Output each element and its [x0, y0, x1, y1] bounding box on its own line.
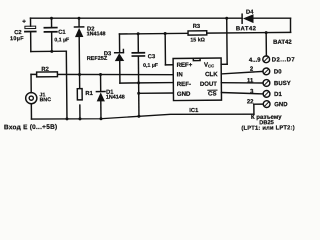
svg-text:DOUT: DOUT [200, 82, 217, 88]
node junction C1 bottom [50, 50, 53, 53]
svg-text:D4: D4 [246, 10, 254, 16]
svg-text:BUSY: BUSY [274, 81, 291, 87]
svg-text:GND: GND [177, 91, 191, 98]
pin BUSY connector [247, 78, 291, 88]
pin GND connector [247, 99, 288, 108]
node junction D1/rail [99, 117, 102, 120]
svg-text:REF+: REF+ [177, 62, 193, 69]
node junction R1/rail [78, 117, 81, 120]
svg-text:15 kΩ: 15 kΩ [190, 37, 205, 43]
wire REF+ elbow [165, 33, 173, 64]
svg-text:R3: R3 [193, 24, 201, 30]
resistor R1 [77, 74, 94, 119]
pin D1 connector [250, 89, 282, 98]
wire ground to GND pin [254, 104, 263, 114]
capacitor C3 [132, 34, 158, 117]
wire +5V top rail [31, 14, 291, 32]
node junction REF+ drop [164, 32, 167, 35]
node junction GND wire [137, 92, 140, 95]
wire input node [31, 73, 173, 76]
svg-text:CS: CS [208, 90, 217, 97]
capacitor C1 [44, 18, 69, 52]
svg-text:10µF: 10µF [10, 36, 24, 42]
svg-text:REF25Z: REF25Z [87, 56, 108, 62]
svg-text:C1: C1 [58, 30, 66, 36]
diode D4 BAT42 [241, 14, 243, 23]
node junction input/D2-R1 [78, 73, 81, 76]
wire D4 anode to corner [254, 17, 291, 19]
node junction Vcc/top rail [225, 17, 228, 20]
svg-text:+: + [22, 18, 26, 25]
wire R2 to BNC [30, 74, 32, 92]
IC IC1 (ADC) [173, 58, 222, 114]
svg-text:R1: R1 [85, 91, 93, 97]
node junction C3 top [137, 32, 140, 35]
svg-text:BAT42: BAT42 [236, 26, 257, 32]
capacitor C2 [10, 18, 36, 52]
svg-text:VCC: VCC [204, 61, 214, 68]
wire GND pin [139, 92, 174, 94]
svg-text:0,1 µF: 0,1 µF [143, 63, 158, 69]
resistor R3 15k [188, 23, 291, 44]
svg-text:D0: D0 [274, 69, 282, 75]
wire 2.5V reference node [119, 32, 188, 35]
wire DOUT to BUSY [221, 82, 263, 83]
svg-text:22: 22 [247, 99, 254, 105]
wire CS to D1 [221, 92, 263, 94]
pin D0 connector [250, 66, 282, 75]
svg-text:4...9: 4...9 [249, 58, 261, 64]
svg-text:BAT42: BAT42 [273, 40, 292, 46]
wire ground rail [31, 114, 254, 120]
svg-text:(LPT1: или LPT2:): (LPT1: или LPT2:) [241, 125, 295, 132]
diode D2 1N4148 [74, 18, 106, 75]
svg-text:Вход Е (0...+5В): Вход Е (0...+5В) [4, 124, 58, 132]
svg-text:IC1: IC1 [189, 108, 199, 114]
svg-text:R2: R2 [41, 67, 48, 73]
svg-text:C3: C3 [148, 54, 156, 60]
svg-text:1N4148: 1N4148 [87, 31, 106, 37]
svg-text:BNC: BNC [40, 97, 52, 103]
svg-text:GND: GND [274, 102, 288, 108]
wire CLK to D0 [221, 71, 263, 74]
wire Vcc to rail [221, 18, 227, 64]
wire drop to D2..D7 pin [265, 33, 267, 56]
svg-text:CLK: CLK [205, 71, 218, 78]
pin D2..D7 connector [249, 56, 296, 64]
svg-text:REF-: REF- [177, 81, 191, 88]
node junction ground drop/rail [65, 117, 68, 120]
svg-text:D2...D7: D2...D7 [272, 57, 296, 63]
diode D1 1N4148 [96, 74, 125, 119]
node junction input/D1 [99, 73, 102, 76]
node junction D2..D7 drop [265, 31, 268, 34]
svg-text:IN: IN [177, 71, 183, 78]
connector J1 BNC [26, 92, 52, 104]
svg-text:1N4148: 1N4148 [106, 94, 125, 100]
wire BNC to ground rail [30, 104, 32, 119]
node junction C3/rail [137, 115, 140, 118]
zener diode D3 REF25Z [86, 34, 124, 83]
resistor R2 [37, 67, 58, 77]
svg-text:11: 11 [247, 78, 254, 84]
node junction D2 top rail [78, 17, 81, 20]
wire C2-C1 ground join [31, 50, 66, 52]
svg-text:D1: D1 [274, 92, 282, 98]
label LPT connector [241, 115, 295, 132]
wire ground drop [65, 51, 68, 119]
wire REF- [120, 82, 173, 85]
svg-text:0,1 µF: 0,1 µF [54, 37, 69, 43]
node junction C3/REF- [137, 81, 140, 84]
node junction C1 top rail [50, 17, 53, 20]
